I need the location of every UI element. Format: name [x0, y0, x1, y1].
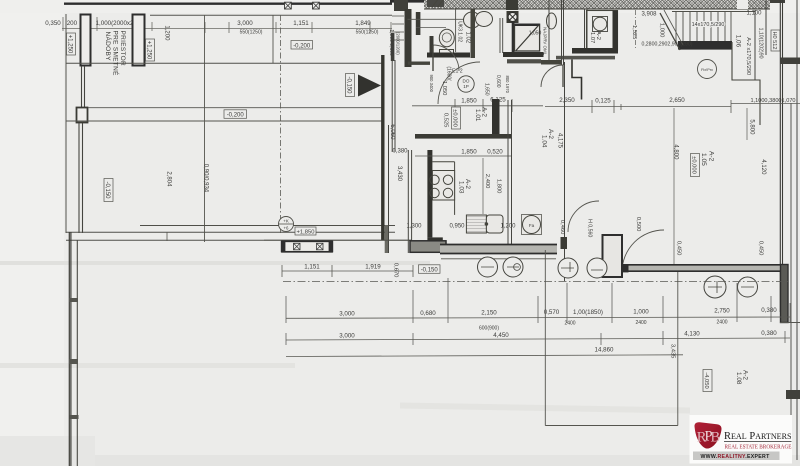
- window swing diagonals top: [432, 0, 443, 7]
- washbasin: [464, 12, 481, 28]
- stove burner 3: [430, 188, 439, 197]
- laundry east wall dark: [613, 11, 619, 54]
- fan symbol cross: [510, 14, 516, 20]
- svg-text:-0,200: -0,200: [227, 113, 245, 119]
- svg-text:0,460: 0,460: [559, 220, 565, 235]
- fold shadow right: [400, 402, 690, 413]
- logo web bar: [693, 452, 780, 461]
- label +1,850 boxed: [295, 227, 316, 236]
- svg-text:RPB: RPB: [697, 429, 720, 446]
- svg-text:2,350: 2,350: [559, 97, 575, 104]
- washer circle: [523, 216, 541, 234]
- svg-text:2,804: 2,804: [166, 171, 172, 187]
- corridor west wall second pair: [392, 60, 395, 152]
- svg-text:H0 512: H0 512: [771, 31, 777, 49]
- svg-text:1.04: 1.04: [541, 135, 548, 148]
- wall tie blob 3: [70, 415, 79, 419]
- vent glyphs 2: [561, 262, 603, 272]
- corridor dim ticks: [592, 100, 731, 113]
- bottom-left curl shadow: [0, 436, 95, 466]
- living room front wall band: [622, 264, 788, 272]
- dim ticks y271: [282, 265, 413, 277]
- lower wall of top-left yard: upper line: [140, 225, 395, 227]
- svg-text:2400: 2400: [635, 320, 646, 326]
- toilet bowl: [439, 29, 454, 47]
- vent glyphs 3: [708, 281, 754, 293]
- vertical dashed axis x280: [280, 15, 282, 233]
- sink bowl: [486, 215, 503, 233]
- label +1,250 right: [146, 39, 155, 61]
- wall chunk right of window: [410, 241, 446, 253]
- right wall corner pier: [781, 265, 789, 323]
- dashed axis x635: [635, 10, 637, 50]
- kitchen north wall: [415, 134, 512, 139]
- vertical line x389 lower: [388, 125, 390, 253]
- hall north wall piece: [408, 62, 430, 65]
- corridor door arc: [541, 65, 563, 87]
- svg-text:1P: 1P: [463, 84, 469, 89]
- fold shadow lower-left: [0, 363, 295, 368]
- paper lighter top-left margin: [0, 0, 64, 466]
- kitchen west wall corner chunk: [427, 237, 442, 244]
- svg-text:Fix!Prx: Fix!Prx: [701, 68, 713, 72]
- corridor wall lines x549-x563: [549, 0, 564, 65]
- svg-text:3,000: 3,000: [339, 311, 355, 318]
- kitchen front wall edges: [440, 245, 557, 254]
- stair step outline right: [732, 42, 760, 125]
- entrance arrow: [358, 75, 381, 97]
- toilet seat inner: [442, 33, 451, 42]
- svg-text:3,000: 3,000: [237, 20, 253, 27]
- svg-text:+K: +K: [283, 219, 289, 224]
- svg-text:REAL PARTNERS: REAL PARTNERS: [724, 431, 792, 442]
- svg-text:2,400: 2,400: [484, 174, 490, 189]
- vertical grid line x204: [204, 15, 206, 242]
- left shaft ladder lines: [392, 16, 404, 40]
- right wall dark chunk y58: [780, 58, 800, 65]
- laundry west double wall: [585, 9, 588, 50]
- hall east wall dark pier: [492, 99, 500, 134]
- laundry south wall dark: [572, 48, 618, 54]
- svg-text:1.07: 1.07: [589, 32, 595, 43]
- kitchen west wall dark: [427, 150, 432, 237]
- corridor step outline: [572, 60, 582, 100]
- svg-text:0,950: 0,950: [449, 224, 465, 230]
- svg-text:1,849: 1,849: [355, 20, 371, 27]
- laundry washer circle: [593, 17, 607, 31]
- K circle symbol: [279, 217, 294, 232]
- small tick x167: [166, 232, 168, 241]
- svg-text:NAJPRV OML: NAJPRV OML: [542, 27, 547, 56]
- svg-text:0,500: 0,500: [635, 217, 641, 232]
- svg-text:+6: +6: [283, 226, 289, 231]
- door jamb dark bar: [430, 36, 434, 53]
- svg-text:1,06: 1,06: [734, 35, 741, 48]
- label H0 512 boxed rotated: [771, 30, 780, 51]
- svg-text:(2000/1200): (2000/1200): [396, 32, 401, 55]
- svg-text:0,125: 0,125: [595, 98, 611, 105]
- svg-text:0,680: 0,680: [420, 310, 436, 317]
- fold shadow mid-left: [0, 261, 430, 265]
- svg-text:550(1250): 550(1250): [356, 30, 379, 36]
- front wall left cap: [622, 264, 629, 272]
- west wall door frame chunk: [561, 237, 568, 249]
- svg-text:14,860: 14,860: [595, 347, 614, 354]
- stair diagonal direction line: [660, 13, 680, 50]
- stove burner 2: [443, 175, 452, 184]
- vent circle pair 2a: [558, 258, 578, 278]
- svg-text:1,525: 1,525: [631, 25, 637, 40]
- label +0,000 boxed rotated: [691, 154, 700, 177]
- window cross marker 2: [313, 2, 320, 9]
- svg-text:+1,250: +1,250: [67, 35, 73, 54]
- dim row 2 labels: [339, 330, 777, 340]
- svg-text:900 3400: 900 3400: [429, 75, 434, 93]
- vertical line x273 upper: [272, 15, 274, 63]
- label +0,000 boxed rotated: [452, 107, 461, 129]
- svg-text:0,450: 0,450: [675, 241, 681, 256]
- svg-text:1,10(1202)90: 1,10(1202)90: [757, 28, 763, 59]
- horizontal line y121: [66, 120, 384, 122]
- svg-text:PRE SMETNÉ: PRE SMETNÉ: [112, 31, 121, 77]
- svg-text:±0,000: ±0,000: [691, 156, 697, 174]
- label 4,050 boxed rotated: [703, 370, 712, 392]
- stair circle symbol: [698, 60, 717, 79]
- svg-text:4,175: 4,175: [557, 133, 563, 149]
- shower cabin diagonal: [516, 25, 539, 51]
- svg-text:-0,150: -0,150: [104, 181, 110, 199]
- stair top edge line: [672, 11, 755, 13]
- svg-text:5,800: 5,800: [749, 119, 755, 135]
- svg-text:550(1250): 550(1250): [240, 30, 263, 36]
- svg-text:1,151: 1,151: [293, 20, 309, 27]
- counter top line: [432, 161, 454, 163]
- svg-text:800 1970: 800 1970: [505, 76, 510, 94]
- svg-text:1,300: 1,300: [406, 224, 422, 230]
- top wall inner line: [150, 14, 392, 16]
- vent circle pair 1a: [478, 257, 498, 277]
- top dimension line: [62, 28, 392, 30]
- hall dim line: [412, 105, 543, 107]
- bathroom door leaf: [432, 45, 434, 71]
- paper top margin light: [0, 0, 800, 13]
- stair treads: [676, 12, 731, 42]
- washer square: [522, 215, 542, 235]
- vent circle pair 3a: [704, 276, 726, 298]
- dim row 1 labels: [339, 307, 777, 318]
- svg-text:UK3 1.02: UK3 1.02: [456, 21, 462, 42]
- dim line y271: [282, 270, 413, 272]
- interior dim vertical x745: [746, 108, 748, 140]
- shower south wall lower band: [507, 59, 541, 63]
- right wall inner x791 lower: [790, 103, 792, 455]
- svg-text:-0,150: -0,150: [346, 76, 352, 94]
- vent circle pair 1b: [503, 257, 523, 277]
- kitchen interior dim line vertical: [482, 158, 484, 214]
- logo divider line: [724, 441, 792, 443]
- svg-text:REAL ESTATE BROKERAGE: REAL ESTATE BROKERAGE: [725, 445, 792, 451]
- svg-text:0,90/0,934: 0,90/0,934: [203, 164, 209, 193]
- stove burner 1: [430, 175, 439, 184]
- bathroom pier dark: [416, 12, 421, 35]
- svg-text:3,435: 3,435: [669, 344, 675, 359]
- left shaft dark bar: [391, 33, 395, 61]
- svg-text:1,919: 1,919: [365, 264, 381, 271]
- svg-text:+1,250: +1,250: [146, 41, 152, 60]
- balcony right vertical x678: [677, 272, 679, 426]
- svg-text:1,050: 1,050: [441, 81, 447, 96]
- wall tie blob 1: [69, 298, 78, 302]
- balcony long vertical x545: [544, 250, 546, 426]
- K circle divider: [279, 223, 294, 225]
- fan symbol circle: [508, 13, 517, 22]
- shower room west wall: [471, 9, 476, 58]
- svg-text:3,430: 3,430: [396, 166, 402, 182]
- svg-text:0,450: 0,450: [757, 241, 763, 256]
- horizontal line y107: [88, 107, 384, 109]
- lower wall of top-left yard: lower line: [66, 231, 395, 233]
- double stud wall below pier A: [82, 66, 85, 107]
- svg-text:A-2 x170,5/290: A-2 x170,5/290: [745, 37, 751, 75]
- svg-text:4,800: 4,800: [673, 144, 679, 160]
- double stud wall below column: [79, 123, 83, 233]
- svg-text:1,650: 1,650: [483, 83, 489, 96]
- kitchen top dim line: [415, 155, 512, 157]
- svg-text:4,130: 4,130: [684, 331, 700, 338]
- right wall main double x781: [780, 0, 782, 312]
- svg-text:4,120: 4,120: [760, 159, 766, 175]
- svg-text:A-2: A-2: [708, 151, 715, 162]
- horizontal line y63: [66, 62, 383, 64]
- svg-text:1,000: 1,000: [633, 309, 649, 316]
- sink faucet dot: [485, 222, 489, 226]
- dim row 3 line: [286, 355, 683, 357]
- stair diagonal second: [664, 10, 683, 45]
- svg-text:1,850: 1,850: [461, 98, 477, 105]
- window cross marker 1: [285, 2, 292, 9]
- dash-dot reference line y281: [283, 281, 788, 283]
- top dark sill left of hatch: [390, 0, 424, 3]
- dim row 2 line: [286, 338, 790, 340]
- balcony bottom line: [545, 425, 678, 427]
- wall band x541-561: [541, 60, 561, 65]
- top dimension text row: [45, 20, 371, 27]
- label -0,150 boxed bottom: [419, 265, 441, 274]
- svg-text:H 0,560: H 0,560: [586, 219, 592, 237]
- svg-text:±0,000: ±0,000: [452, 109, 458, 127]
- svg-text:2400: 2400: [716, 319, 727, 325]
- window marker box left: [282, 241, 332, 252]
- svg-text:Fa: Fa: [529, 223, 535, 228]
- kitchen front wall band: [440, 244, 557, 254]
- stair side wall line x755: [754, 10, 756, 80]
- sink hatched drainer: [466, 215, 486, 233]
- dim row 1 line: [286, 317, 790, 318]
- svg-text:-4,050: -4,050: [703, 372, 709, 388]
- wall pier top-left A: [81, 15, 91, 66]
- door pier dark rect: [603, 235, 623, 277]
- svg-text:14x170,5/290: 14x170,5/290: [692, 22, 725, 28]
- right wall line x797: [796, 0, 798, 460]
- svg-text:2400: 2400: [564, 321, 575, 327]
- svg-text:2,650: 2,650: [669, 97, 685, 104]
- top dimension ticks: [63, 17, 391, 33]
- vent circle pair 3b: [738, 277, 758, 297]
- room west wall line x564: [564, 62, 566, 281]
- svg-text:0,520: 0,520: [487, 149, 503, 156]
- svg-text:1.08: 1.08: [735, 372, 742, 385]
- svg-text:1,1000,38001,070: 1,1000,38001,070: [750, 98, 795, 104]
- svg-text:1.05: 1.05: [700, 153, 707, 166]
- svg-text:,200: ,200: [65, 20, 78, 27]
- svg-text:600(900): 600(900): [479, 326, 499, 332]
- top wall line thick: [64, 3, 392, 5]
- right lower horizontal tick: [780, 322, 800, 324]
- svg-text:1,800: 1,800: [495, 179, 501, 194]
- dark shaft block 2: [427, 0, 444, 7]
- kitchen front lower line: [441, 258, 556, 260]
- dark shaft block 1: [394, 0, 408, 11]
- svg-text:+1,850: +1,850: [297, 230, 315, 236]
- svg-text:0,600: 0,600: [495, 75, 501, 88]
- svg-text:1,00(1850): 1,00(1850): [573, 309, 603, 316]
- facade line y240: [66, 239, 412, 241]
- kitchen east wall double: [508, 100, 512, 247]
- wall chunk below x385: [385, 225, 389, 253]
- window cross 2: [317, 243, 324, 250]
- svg-text:1,850: 1,850: [461, 149, 477, 156]
- svg-text:2,750: 2,750: [714, 308, 730, 315]
- bathroom west wall dark: [405, 9, 412, 67]
- right lower wall dark chunk: [786, 390, 800, 399]
- svg-text:0,570: 0,570: [544, 309, 560, 316]
- svg-text:1,151: 1,151: [304, 264, 320, 271]
- svg-text:6,060: 6,060: [389, 124, 395, 140]
- window jamb caps: [281, 241, 286, 253]
- balcony door arc: [622, 230, 664, 272]
- bathroom south wall dark: [427, 53, 470, 58]
- logo shield: [695, 422, 722, 448]
- svg-text:0,670: 0,670: [392, 263, 398, 278]
- hall door arc: [438, 62, 480, 104]
- vent circle pair 2b: [587, 258, 607, 278]
- svg-text:1.02: 1.02: [465, 32, 471, 44]
- laundry washer square: [593, 17, 608, 32]
- partition line x455: [455, 8, 457, 52]
- svg-text:2,150: 2,150: [481, 310, 497, 317]
- shower west wall dark: [512, 22, 515, 53]
- svg-text:NÁDOBY: NÁDOBY: [104, 32, 113, 62]
- svg-text:3,908: 3,908: [641, 12, 657, 18]
- svg-text:1,000 0,600: 1,000 0,600: [388, 29, 394, 56]
- dim row 2 ticks: [286, 331, 785, 345]
- right wall line x766 upper: [765, 0, 767, 55]
- dim line y103 right: [731, 103, 800, 105]
- bathroom shelf line y19: [408, 18, 471, 20]
- stove burner 4: [443, 188, 452, 197]
- label -0,200 lower: [224, 110, 247, 119]
- svg-text:-0,150: -0,150: [421, 268, 439, 274]
- wall tie blob 2: [69, 359, 78, 364]
- label -0,150 boxed rotated left: [104, 179, 113, 202]
- label -0,150 boxed rotated at arrow: [346, 74, 355, 97]
- svg-text:PRIESTOR: PRIESTOR: [119, 31, 126, 67]
- counter front edge: [454, 162, 456, 215]
- column mid-left: [77, 108, 88, 123]
- vent glyphs 1: [481, 266, 519, 268]
- toilet tank: [440, 50, 454, 58]
- svg-text:1,100: 1,100: [746, 11, 762, 17]
- laundry room box: [587, 11, 618, 51]
- svg-text:0,2800,2902,902(290): 0,2800,2902,902(290): [641, 42, 692, 48]
- room door arc west: [568, 201, 599, 232]
- kitchen hall wall double lines: [408, 150, 411, 253]
- svg-text:-0,200: -0,200: [293, 43, 311, 49]
- left exterior double wall going down: [69, 232, 71, 466]
- svg-text:4,450: 4,450: [493, 332, 509, 339]
- hatched band bottom edge: [424, 8, 770, 10]
- corridor dim line: [545, 106, 731, 108]
- stove outline: [432, 171, 454, 201]
- living room front wall edges: [622, 265, 788, 271]
- corridor door leaf: [562, 65, 564, 87]
- fan symbol block: [507, 11, 519, 23]
- svg-text:WWW.REALITNY.EXPERT: WWW.REALITNY.EXPERT: [700, 454, 770, 460]
- bottom edge shading: [0, 455, 800, 466]
- laundry washbasin: [547, 13, 557, 29]
- svg-text:1,000: 1,000: [658, 23, 664, 38]
- balcony door leaf: [621, 235, 623, 272]
- bathroom shelf line y27: [416, 27, 446, 29]
- svg-text:1,200: 1,200: [164, 25, 170, 41]
- svg-text:3,000: 3,000: [339, 333, 355, 340]
- svg-text:0,380: 0,380: [392, 149, 408, 155]
- left exterior double wall inner line: [76, 240, 78, 466]
- dim row 1 ticks: [286, 278, 790, 323]
- svg-text:1.01: 1.01: [474, 109, 481, 122]
- door circle DO 1P: [458, 76, 474, 92]
- label -0,200 upper: [291, 41, 313, 50]
- svg-text:0,525: 0,525: [442, 113, 448, 128]
- hatched wall band: [424, 0, 770, 9]
- svg-text:DO: DO: [463, 79, 470, 84]
- west window band: sill lines: [264, 239, 412, 241]
- label +1,250 left: [67, 33, 76, 55]
- svg-text:1.03: 1.03: [458, 181, 465, 194]
- dark block at flue: [506, 0, 518, 10]
- window cross 1: [294, 243, 301, 250]
- room divider lines x500: [500, 18, 503, 53]
- svg-text:0,350: 0,350: [45, 20, 61, 27]
- stair landing dark band: [678, 41, 732, 50]
- hall dim ticks: [455, 99, 512, 112]
- wall pier top-left B: [133, 15, 145, 66]
- dim row 1 sublabels: [479, 319, 728, 331]
- svg-text:0,380: 0,380: [761, 307, 777, 314]
- left outer wall thin upper: [65, 14, 67, 233]
- shower south wall dark: [503, 52, 544, 57]
- hatched band gap white: [737, 0, 748, 9]
- room text PRIESTOR PRE SMETNE NADOBY: [104, 31, 126, 77]
- svg-text:0,380: 0,380: [761, 330, 777, 337]
- logo white panel: [690, 415, 793, 464]
- sub labels 550(1250): [240, 30, 379, 36]
- corridor dim row: [559, 97, 685, 105]
- washbasin 2: [476, 12, 493, 27]
- shower cabin square: [515, 24, 540, 51]
- svg-text:1,050: 1,050: [529, 31, 542, 37]
- wall band below laundry: [556, 56, 615, 60]
